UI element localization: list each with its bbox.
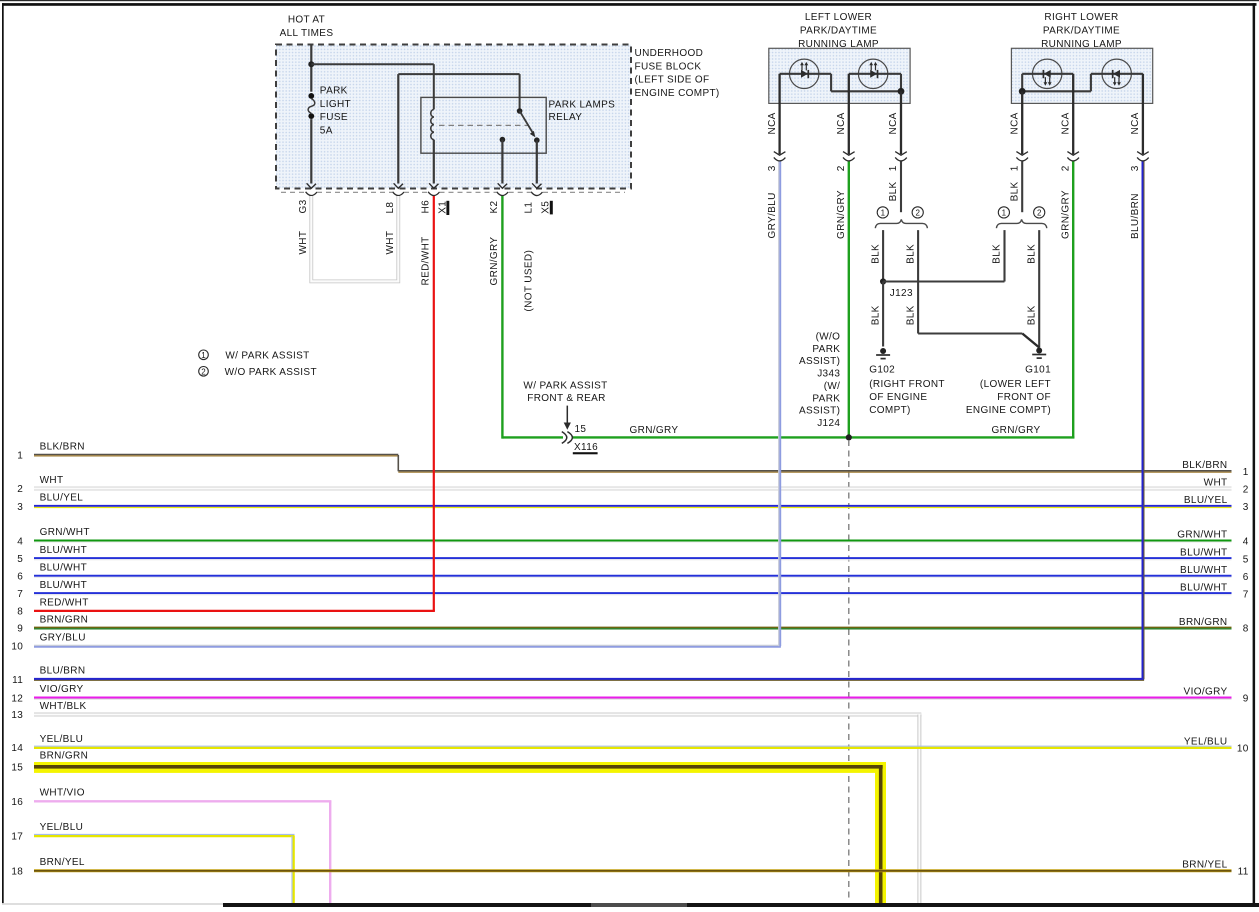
svg-text:ENGINE COMPT): ENGINE COMPT) bbox=[635, 88, 720, 99]
svg-text:YEL/BLU: YEL/BLU bbox=[40, 734, 84, 745]
svg-text:NCA: NCA bbox=[1130, 112, 1141, 134]
svg-text:G102: G102 bbox=[869, 365, 895, 376]
svg-text:11: 11 bbox=[12, 675, 23, 686]
svg-text:9: 9 bbox=[17, 624, 23, 635]
svg-text:BLK: BLK bbox=[870, 305, 881, 325]
svg-text:1: 1 bbox=[17, 451, 23, 462]
svg-text:4: 4 bbox=[17, 536, 23, 547]
svg-text:BRN/YEL: BRN/YEL bbox=[1182, 860, 1227, 871]
svg-text:BRN/YEL: BRN/YEL bbox=[40, 857, 85, 868]
svg-text:WHT: WHT bbox=[385, 231, 396, 255]
svg-text:GRN/GRY: GRN/GRY bbox=[992, 425, 1041, 436]
svg-text:W/ PARK ASSIST: W/ PARK ASSIST bbox=[225, 351, 309, 362]
svg-text:PARK/DAYTIME: PARK/DAYTIME bbox=[800, 26, 877, 37]
svg-text:2: 2 bbox=[1037, 208, 1042, 217]
svg-text:ALL TIMES: ALL TIMES bbox=[280, 28, 334, 39]
svg-text:HOT AT: HOT AT bbox=[288, 14, 325, 25]
svg-text:L1: L1 bbox=[523, 202, 534, 214]
svg-text:FRONT & REAR: FRONT & REAR bbox=[527, 393, 605, 404]
svg-text:BLK: BLK bbox=[870, 244, 881, 264]
svg-text:GRN/GRY: GRN/GRY bbox=[630, 425, 679, 436]
svg-text:4: 4 bbox=[1243, 537, 1249, 548]
svg-text:3: 3 bbox=[17, 502, 23, 513]
svg-text:2: 2 bbox=[915, 208, 920, 217]
svg-text:GRN/GRY: GRN/GRY bbox=[489, 237, 500, 286]
svg-text:1: 1 bbox=[1243, 467, 1249, 478]
svg-text:L8: L8 bbox=[385, 202, 396, 214]
svg-text:18: 18 bbox=[11, 866, 23, 877]
svg-text:ASSIST): ASSIST) bbox=[799, 406, 840, 417]
svg-text:1: 1 bbox=[1009, 165, 1020, 171]
svg-text:BLK: BLK bbox=[1026, 305, 1037, 325]
svg-text:10: 10 bbox=[11, 642, 23, 653]
svg-text:9: 9 bbox=[1243, 694, 1249, 705]
svg-text:LIGHT: LIGHT bbox=[320, 99, 351, 110]
svg-text:RELAY: RELAY bbox=[549, 112, 583, 123]
svg-text:PARK: PARK bbox=[812, 344, 840, 355]
svg-text:WHT/BLK: WHT/BLK bbox=[40, 701, 87, 712]
svg-text:BLU/WHT: BLU/WHT bbox=[40, 545, 87, 556]
svg-text:LEFT LOWER: LEFT LOWER bbox=[805, 12, 872, 23]
svg-text:7: 7 bbox=[17, 589, 23, 600]
svg-text:WHT: WHT bbox=[40, 475, 64, 486]
svg-text:8: 8 bbox=[1243, 624, 1249, 635]
svg-text:GRN/GRY: GRN/GRY bbox=[836, 190, 847, 239]
svg-text:11: 11 bbox=[1238, 867, 1249, 878]
svg-text:NCA: NCA bbox=[888, 112, 899, 134]
svg-text:RED/WHT: RED/WHT bbox=[40, 597, 89, 608]
svg-text:14: 14 bbox=[11, 743, 23, 754]
svg-text:VIO/GRY: VIO/GRY bbox=[40, 684, 84, 695]
svg-text:PARK/DAYTIME: PARK/DAYTIME bbox=[1043, 26, 1120, 37]
svg-text:WHT: WHT bbox=[298, 231, 309, 255]
svg-text:5A: 5A bbox=[320, 125, 333, 136]
svg-text:BLU/YEL: BLU/YEL bbox=[40, 493, 84, 504]
svg-text:PARK LAMPS: PARK LAMPS bbox=[549, 99, 616, 110]
svg-text:7: 7 bbox=[1243, 589, 1249, 600]
svg-text:BLK: BLK bbox=[992, 244, 1003, 264]
svg-text:15: 15 bbox=[575, 424, 587, 435]
svg-text:GRN/WHT: GRN/WHT bbox=[1177, 530, 1227, 541]
svg-text:17: 17 bbox=[11, 831, 23, 842]
svg-text:RUNNING LAMP: RUNNING LAMP bbox=[1041, 39, 1122, 50]
svg-text:G3: G3 bbox=[298, 199, 309, 213]
svg-text:PARK: PARK bbox=[320, 86, 348, 97]
svg-text:J124: J124 bbox=[817, 418, 840, 429]
svg-text:BLK: BLK bbox=[1026, 244, 1037, 264]
svg-text:(W/O: (W/O bbox=[816, 332, 841, 343]
svg-text:6: 6 bbox=[17, 572, 23, 583]
svg-text:OF ENGINE: OF ENGINE bbox=[869, 392, 927, 403]
svg-text:GRY/BLU: GRY/BLU bbox=[767, 192, 778, 238]
svg-text:WHT: WHT bbox=[1204, 477, 1228, 488]
svg-text:J343: J343 bbox=[817, 369, 840, 380]
svg-text:BLK: BLK bbox=[888, 181, 899, 201]
svg-text:16: 16 bbox=[11, 797, 23, 808]
svg-text:RED/WHT: RED/WHT bbox=[420, 236, 431, 285]
svg-text:(NOT USED): (NOT USED) bbox=[523, 250, 534, 312]
svg-text:(W/: (W/ bbox=[824, 381, 841, 392]
svg-text:WHT/VIO: WHT/VIO bbox=[40, 788, 85, 799]
svg-text:(LEFT SIDE OF: (LEFT SIDE OF bbox=[635, 75, 710, 86]
svg-text:10: 10 bbox=[1237, 743, 1249, 754]
svg-text:NCA: NCA bbox=[767, 112, 778, 134]
svg-text:15: 15 bbox=[11, 763, 23, 774]
svg-text:BLU/WHT: BLU/WHT bbox=[40, 580, 87, 591]
svg-text:GRN/WHT: GRN/WHT bbox=[40, 527, 90, 538]
svg-text:BLK: BLK bbox=[905, 244, 916, 264]
svg-text:BLK/BRN: BLK/BRN bbox=[1182, 460, 1227, 471]
svg-text:BLU/WHT: BLU/WHT bbox=[1180, 547, 1227, 558]
svg-text:BLU/BRN: BLU/BRN bbox=[40, 666, 86, 677]
svg-text:VIO/GRY: VIO/GRY bbox=[1184, 687, 1228, 698]
svg-text:(RIGHT FRONT: (RIGHT FRONT bbox=[869, 379, 945, 390]
svg-text:5: 5 bbox=[1243, 554, 1249, 565]
svg-text:BLK/BRN: BLK/BRN bbox=[40, 441, 85, 452]
svg-text:PARK: PARK bbox=[812, 393, 840, 404]
svg-text:GRN/GRY: GRN/GRY bbox=[1060, 190, 1071, 239]
svg-text:3: 3 bbox=[1130, 165, 1141, 171]
svg-text:6: 6 bbox=[1243, 572, 1249, 583]
svg-text:FRONT OF: FRONT OF bbox=[997, 392, 1051, 403]
svg-text:2: 2 bbox=[1243, 484, 1249, 495]
svg-text:1: 1 bbox=[1002, 208, 1007, 217]
svg-text:ASSIST): ASSIST) bbox=[799, 356, 840, 367]
svg-text:(LOWER LEFT: (LOWER LEFT bbox=[980, 379, 1051, 390]
svg-text:FUSE BLOCK: FUSE BLOCK bbox=[635, 61, 702, 72]
svg-text:UNDERHOOD: UNDERHOOD bbox=[635, 48, 704, 59]
svg-text:YEL/BLU: YEL/BLU bbox=[40, 822, 84, 833]
svg-text:5: 5 bbox=[17, 554, 23, 565]
svg-text:1: 1 bbox=[881, 208, 886, 217]
svg-text:COMPT): COMPT) bbox=[869, 405, 911, 416]
svg-text:FUSE: FUSE bbox=[320, 112, 348, 123]
svg-text:BLK: BLK bbox=[1009, 181, 1020, 201]
svg-text:J123: J123 bbox=[890, 288, 913, 299]
svg-text:BRN/GRN: BRN/GRN bbox=[40, 614, 89, 625]
svg-text:NCA: NCA bbox=[836, 112, 847, 134]
svg-text:BLU/YEL: BLU/YEL bbox=[1184, 495, 1228, 506]
svg-text:G101: G101 bbox=[1025, 365, 1051, 376]
svg-text:RUNNING LAMP: RUNNING LAMP bbox=[798, 39, 879, 50]
svg-text:X116: X116 bbox=[574, 442, 598, 453]
svg-text:GRY/BLU: GRY/BLU bbox=[40, 633, 86, 644]
svg-text:YEL/BLU: YEL/BLU bbox=[1184, 736, 1228, 747]
svg-text:12: 12 bbox=[11, 693, 23, 704]
svg-text:BLU/WHT: BLU/WHT bbox=[1180, 582, 1227, 593]
svg-text:2: 2 bbox=[1060, 165, 1071, 171]
svg-text:BLU/WHT: BLU/WHT bbox=[40, 563, 87, 574]
svg-text:ENGINE COMPT): ENGINE COMPT) bbox=[966, 405, 1051, 416]
svg-text:NCA: NCA bbox=[1009, 112, 1020, 134]
svg-text:RIGHT LOWER: RIGHT LOWER bbox=[1044, 12, 1118, 23]
svg-text:3: 3 bbox=[767, 165, 778, 171]
svg-text:1: 1 bbox=[201, 351, 206, 360]
svg-text:BLU/WHT: BLU/WHT bbox=[1180, 565, 1227, 576]
svg-text:2: 2 bbox=[17, 484, 23, 495]
svg-text:W/ PARK ASSIST: W/ PARK ASSIST bbox=[523, 380, 607, 391]
svg-text:BLU/BRN: BLU/BRN bbox=[1130, 193, 1141, 239]
svg-text:K2: K2 bbox=[489, 200, 500, 213]
svg-text:NCA: NCA bbox=[1060, 112, 1071, 134]
svg-text:BRN/GRN: BRN/GRN bbox=[1179, 617, 1228, 628]
svg-text:2: 2 bbox=[836, 165, 847, 171]
svg-text:H6: H6 bbox=[420, 200, 431, 214]
svg-text:8: 8 bbox=[17, 607, 23, 618]
svg-text:2: 2 bbox=[201, 367, 206, 376]
svg-text:1: 1 bbox=[888, 165, 899, 171]
svg-text:W/O PARK ASSIST: W/O PARK ASSIST bbox=[225, 367, 317, 378]
svg-text:13: 13 bbox=[11, 710, 23, 721]
svg-text:3: 3 bbox=[1243, 502, 1249, 513]
svg-text:BLK: BLK bbox=[905, 305, 916, 325]
svg-text:BRN/GRN: BRN/GRN bbox=[40, 751, 89, 762]
